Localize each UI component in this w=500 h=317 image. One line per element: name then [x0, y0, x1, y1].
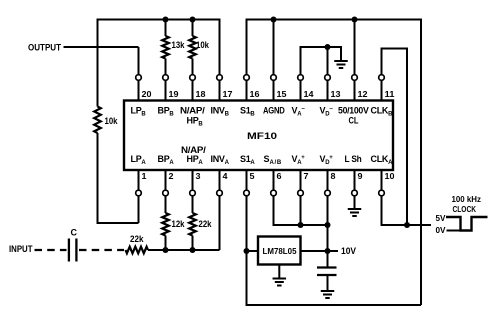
ground symbol for V- rail — [340, 46, 342, 61]
resistor R6 22k — [189, 213, 196, 236]
wire pin 19 stub — [165, 80, 167, 100]
wire pin 16 stub — [246, 80, 248, 100]
svg-text:10k: 10k — [196, 40, 210, 50]
wire pin 8 stub — [327, 170, 329, 190]
wire input line to pin 4 — [148, 249, 220, 251]
svg-text:12k: 12k — [172, 219, 186, 229]
wire pin 5 vertical down to bottom rail — [246, 196, 248, 305]
svg-text:L Sh: L Sh — [345, 154, 362, 164]
svg-text:17: 17 — [223, 89, 233, 99]
svg-text:13: 13 — [331, 89, 341, 99]
svg-text:2: 2 — [169, 171, 174, 181]
svg-text:10V: 10V — [341, 246, 356, 256]
svg-text:N/AP/: N/AP/ — [180, 106, 205, 116]
svg-text:13k: 13k — [172, 40, 186, 50]
svg-text:10: 10 — [385, 171, 395, 181]
wire pin 1 stub — [138, 170, 140, 190]
wire CLKA down and right to clock — [382, 196, 432, 225]
resistor R2 13k — [162, 36, 169, 59]
wire pin 5 stub — [246, 170, 248, 190]
wire pin 4 stub — [219, 170, 221, 190]
pin 9 circle — [352, 190, 358, 196]
resistor R5 12k — [162, 213, 169, 236]
clock waveform 0V reference line — [447, 230, 461, 232]
wire pin 13 vertical — [327, 47, 329, 75]
wire right vertical AGND net — [420, 19, 422, 306]
pin 15 circle — [271, 75, 277, 81]
pin 1 circle — [136, 190, 142, 196]
svg-text:MF10: MF10 — [247, 131, 277, 141]
wire junction dot rail at 10k — [190, 17, 196, 23]
wire capacitor lower lead — [327, 275, 329, 290]
wire junction dot pin7 net — [298, 222, 304, 228]
pin 4 circle — [217, 190, 223, 196]
pin 20 circle — [136, 75, 142, 81]
wire pin 12 stub — [354, 80, 356, 100]
capacitor C2 filter top plate — [317, 266, 337, 268]
wire V- rail pins 14-13 to ground — [301, 46, 342, 48]
wire 22k lower lead — [192, 236, 194, 251]
wire top feedback rail B (pins 17-18-19 to 10k left) — [97, 19, 220, 21]
pin 6 circle — [271, 190, 277, 196]
svg-text:10k: 10k — [105, 116, 119, 126]
wire pin 4 vertical — [219, 196, 221, 250]
wire 10k left lower lead down to LPA corner — [97, 133, 99, 223]
svg-text:8: 8 — [331, 171, 336, 181]
svg-text:AGND: AGND — [263, 106, 285, 116]
svg-text:11: 11 — [385, 89, 395, 99]
svg-text:7: 7 — [304, 171, 309, 181]
pin 7 circle — [298, 190, 304, 196]
resistor R 10k left vertical lead upper — [97, 19, 99, 107]
svg-text:C: C — [71, 228, 78, 238]
wire junction dot clock node — [404, 222, 410, 228]
wire pin 7 stub — [300, 170, 302, 190]
wire top ground rail (pins 16-15-12 to right vertical) — [247, 19, 422, 21]
svg-text:22k: 22k — [199, 219, 213, 229]
wire pin 6 stub — [273, 170, 275, 190]
wire junction dot 10V node — [325, 248, 331, 254]
wire pin1 vertical up to circle — [138, 196, 140, 223]
ground symbol L Sh pin 9 — [354, 196, 356, 209]
wire junction dot rail at pin 12 — [352, 17, 358, 23]
wire pin 16 up to rail — [246, 19, 248, 75]
svg-text:16: 16 — [250, 89, 260, 99]
wire pin 11 stub — [381, 80, 383, 100]
clock waveform — [446, 217, 488, 231]
regulator U2 LM78L05 body — [258, 237, 301, 265]
svg-text:14: 14 — [304, 89, 314, 99]
capacitor C2 filter bottom plate — [317, 274, 337, 276]
wire dashed input lead right — [79, 249, 124, 251]
svg-text:OUTPUT: OUTPUT — [28, 43, 61, 53]
wire pin 2 stub — [165, 170, 167, 190]
pin 13 circle — [325, 75, 331, 81]
wire junction dot input at pin 2 — [163, 247, 169, 253]
wire pin 3 stub — [192, 170, 194, 190]
wire 12k lower lead — [165, 236, 167, 251]
svg-text:22k: 22k — [130, 234, 144, 244]
wire pin 15 vertical — [273, 20, 275, 75]
capacitor C left plate — [68, 239, 70, 262]
wire junction dot rail at 13k — [163, 17, 169, 23]
pin 16 circle — [244, 75, 250, 81]
pin 19 circle — [163, 75, 169, 81]
svg-text:INPUT: INPUT — [9, 244, 33, 254]
wire 10k lower lead — [192, 59, 194, 75]
pin 14 circle — [298, 75, 304, 81]
wire pin 9 stub — [354, 170, 356, 190]
svg-text:1: 1 — [142, 171, 147, 181]
svg-text:18: 18 — [196, 89, 206, 99]
svg-text:6: 6 — [277, 171, 282, 181]
pin 18 circle — [190, 75, 196, 81]
wire 13k upper lead — [165, 20, 167, 37]
wire junction dot pin8 net — [325, 222, 331, 228]
svg-text:20: 20 — [142, 89, 152, 99]
wire pin 20 stub — [138, 80, 140, 100]
wire bottom rail — [246, 304, 422, 306]
op-amp U1 MF10 IC body — [124, 101, 393, 171]
wire regulator output lead — [301, 250, 339, 252]
wire junction dot rail at pin 15 — [271, 17, 277, 23]
pin 10 circle — [379, 190, 385, 196]
resistor R1 10k (left) — [94, 107, 101, 134]
pin 11 circle — [379, 75, 385, 81]
wire junction dot regulator input — [244, 248, 250, 254]
pin 8 circle — [325, 190, 331, 196]
wire junction dot at pin 13 — [325, 44, 331, 50]
svg-text:0V: 0V — [436, 225, 446, 235]
wire pin 7 vertical — [300, 196, 302, 225]
wire CLKB route up-right-down — [382, 49, 408, 226]
wire pin 17 stub — [219, 80, 221, 100]
wire dashed input lead left — [35, 249, 67, 251]
pin 17 circle — [217, 75, 223, 81]
wire pin 8 vertical down to capacitor — [327, 196, 329, 267]
capacitor C right plate — [75, 239, 77, 262]
wire pin 10 stub — [381, 170, 383, 190]
wire OUTPUT lead — [64, 46, 139, 48]
wire horizontal to pin 1 — [97, 222, 139, 224]
svg-text:5: 5 — [250, 171, 255, 181]
ground symbol filter capacitor — [327, 289, 329, 291]
resistor R3 10k — [189, 36, 196, 59]
wire pin 6 down — [274, 196, 328, 225]
wire pin 15 stub — [273, 80, 275, 100]
svg-text:4: 4 — [223, 171, 228, 181]
ground symbol regulator — [278, 265, 280, 279]
wire junction dot input at pin 3 — [190, 247, 196, 253]
pin 5 circle — [244, 190, 250, 196]
wire pin 17 up to rail — [219, 19, 221, 75]
svg-text:19: 19 — [169, 89, 179, 99]
wire 13k lower lead — [165, 59, 167, 75]
wire 22k upper lead — [192, 196, 194, 213]
pin 12 circle — [352, 75, 358, 81]
wire pin 18 stub — [192, 80, 194, 100]
resistor R4 22k input — [126, 247, 149, 254]
wire pin 12 vertical — [354, 20, 356, 75]
svg-text:12: 12 — [358, 89, 368, 99]
pin 2 circle — [163, 190, 169, 196]
pin 3 circle — [190, 190, 196, 196]
wire pin 13 stub — [327, 80, 329, 100]
svg-text:9: 9 — [358, 171, 363, 181]
wire pin 14 vertical — [300, 46, 302, 75]
wire 10k upper lead — [192, 20, 194, 37]
svg-text:100 kHz: 100 kHz — [452, 194, 482, 204]
svg-text:50/100V: 50/100V — [338, 106, 369, 116]
svg-text:5V: 5V — [436, 213, 446, 223]
svg-text:CLOCK: CLOCK — [453, 204, 477, 214]
svg-text:LM78L05: LM78L05 — [263, 246, 297, 256]
wire OUTPUT down to pin 20 — [138, 47, 140, 75]
wire regulator input lead — [247, 250, 259, 252]
svg-text:15: 15 — [277, 89, 287, 99]
wire pin 14 stub — [300, 80, 302, 100]
svg-text:3: 3 — [196, 171, 201, 181]
wire 12k upper lead — [165, 196, 167, 213]
svg-text:CL: CL — [349, 116, 359, 126]
